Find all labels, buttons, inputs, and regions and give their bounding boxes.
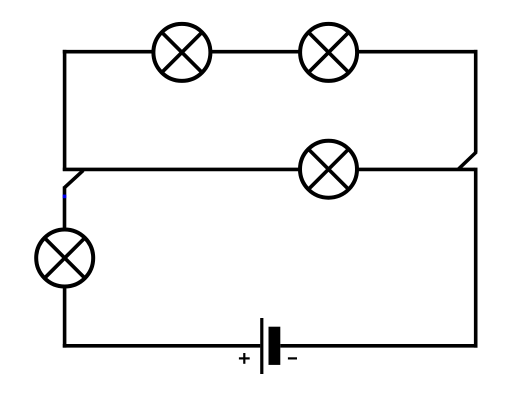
switch blade diagonal (left) bbox=[64, 170, 83, 187]
wire bottom horizontal left of battery bbox=[63, 344, 260, 348]
wire lamp L2 to top-right corner bbox=[358, 50, 478, 54]
lamp L1 bbox=[153, 24, 210, 81]
wire lamp L4 bottom to bottom-left corner bbox=[63, 288, 67, 348]
switch blade diagonal (right) bbox=[459, 152, 477, 169]
wire right upper vertical bbox=[474, 50, 478, 153]
lamp L2 bbox=[300, 24, 357, 81]
label - (battery negative) bbox=[288, 357, 297, 359]
lamp L4 bbox=[36, 230, 93, 287]
wire bottom horizontal right of battery bbox=[280, 344, 477, 348]
wire lower-right vertical bbox=[474, 168, 478, 348]
lamp L3 bbox=[300, 141, 357, 198]
label + (battery positive) bbox=[239, 353, 250, 364]
battery BT1 negative plate (short thick) bbox=[269, 327, 281, 365]
wire middle horizontal right of lamp L3 bbox=[358, 168, 475, 172]
wire between lamp L1 and lamp L2 bbox=[211, 50, 300, 54]
wire lower-left vertical above lamp L4 bbox=[63, 187, 67, 230]
wire top-left to lamp L1 (top horizontal segment) bbox=[63, 50, 153, 54]
wire left upper vertical bbox=[63, 50, 67, 171]
blue mark on lower-left wire bbox=[63, 195, 67, 199]
battery BT1 positive plate (long thin) bbox=[260, 318, 263, 374]
wire middle horizontal left of lamp L3 bbox=[63, 168, 300, 172]
